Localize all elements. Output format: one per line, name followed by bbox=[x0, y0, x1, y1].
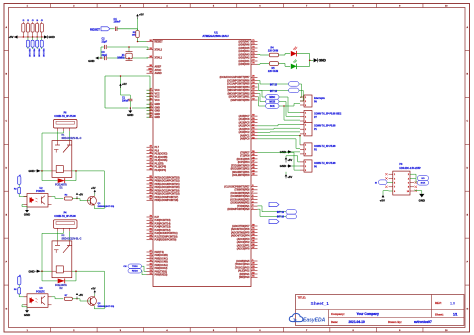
wire PH1 PH0 to CN ports bbox=[142, 266, 147, 274]
svg-text:2: 2 bbox=[305, 101, 306, 103]
connector P6 CONN-TH_3P-P5.08 bbox=[54, 112, 78, 131]
optocoupler U2 PC817C bbox=[24, 188, 52, 207]
connector P6b CONN-TH_3P-P5.08 bbox=[300, 160, 336, 172]
svg-text:100nF: 100nF bbox=[114, 21, 121, 24]
net port SCK bbox=[266, 104, 280, 109]
diode D2 FCEL4STA flyback bbox=[42, 270, 104, 290]
svg-text:220 OHM: 220 OHM bbox=[268, 70, 278, 73]
wire crystal caps to ground bbox=[99, 47, 102, 59]
svg-text:J1: J1 bbox=[22, 20, 24, 22]
svg-text:G: G bbox=[5, 308, 7, 310]
wire PE1 PE0 to INT ports bbox=[258, 206, 287, 217]
wire PC2 to P1 pin3 bbox=[258, 131, 301, 133]
svg-text:EasyEDA: EasyEDA bbox=[303, 318, 326, 324]
svg-text:J3: J3 bbox=[32, 20, 34, 22]
wire R4 to LED D3 bbox=[278, 54, 290, 55]
wire PB6 to INT 15 bbox=[258, 81, 289, 84]
ground port (P8 pin2) bbox=[280, 164, 300, 168]
svg-text:GND: GND bbox=[280, 164, 286, 168]
ground port (J1) bbox=[44, 35, 55, 39]
svg-text:SRD-DC12V-SL-C: SRD-DC12V-SL-C bbox=[62, 137, 82, 140]
wire LEDs to GND bbox=[297, 54, 314, 67]
svg-text:CONN-TH_3P-P5.08: CONN-TH_3P-P5.08 bbox=[54, 116, 76, 118]
ground port (LEDs) bbox=[314, 58, 327, 62]
+5V flag (P3) bbox=[380, 191, 389, 203]
ground (P3) bbox=[414, 191, 425, 203]
net port INT 19 bbox=[277, 210, 297, 215]
diode D1 FCEL4STA flyback bbox=[42, 170, 104, 190]
wire PC4 to P1 pin1 bbox=[258, 125, 301, 126]
ground (crystal) bbox=[88, 57, 98, 63]
net port MOSI (P3) bbox=[375, 180, 389, 185]
svg-text:Interrupts: Interrupts bbox=[314, 97, 325, 100]
svg-text:VCC: VCC bbox=[155, 99, 160, 102]
optocoupler U3 PC817C bbox=[24, 288, 52, 307]
capacitor C2 22pF bbox=[102, 38, 108, 50]
connector J1 5-pin header bbox=[14, 19, 47, 38]
svg-text:RES 10K: RES 10K bbox=[42, 49, 44, 58]
title block bbox=[296, 295, 465, 326]
svg-text:TXD2: TXD2 bbox=[132, 266, 138, 268]
net port SCK (P3) bbox=[414, 178, 429, 185]
svg-text:+5V: +5V bbox=[122, 82, 127, 86]
svg-text:2: 2 bbox=[305, 117, 306, 119]
+5V flag (Q collector) bbox=[91, 287, 96, 296]
svg-text:INT 14: INT 14 bbox=[270, 90, 278, 93]
svg-text:FCEL4STA: FCEL4STA bbox=[55, 284, 67, 287]
+5V flag (VCC) bbox=[119, 82, 127, 88]
wire PA3 to R4 bbox=[258, 54, 270, 57]
net port INT 18 bbox=[277, 214, 297, 219]
resistor R4 220 OHM bbox=[268, 46, 279, 57]
svg-text:22pF: 22pF bbox=[102, 54, 108, 57]
wire XTAL2 net bbox=[101, 47, 148, 49]
relay K1 SRD-DC12V-SL-C bbox=[52, 135, 82, 178]
svg-text:GND: GND bbox=[24, 313, 30, 317]
svg-text:RES 10K: RES 10K bbox=[37, 49, 39, 58]
svg-text:1: 1 bbox=[305, 112, 306, 114]
svg-text:SRD-DC12V-SL-C: SRD-DC12V-SL-C bbox=[62, 237, 82, 240]
svg-text:XTAL2: XTAL2 bbox=[155, 48, 163, 51]
net flag CN2 bbox=[18, 274, 22, 285]
svg-text:XTAL1: XTAL1 bbox=[155, 57, 163, 60]
resistors R8-R11 pullup bbox=[26, 37, 44, 57]
wire connector to relay bbox=[42, 231, 70, 271]
+5V flag (opto pullup) bbox=[76, 193, 84, 199]
+5V flag (opto pullup) bbox=[76, 293, 84, 299]
net flag CN label bbox=[123, 266, 127, 268]
wire VCC loop bbox=[105, 75, 151, 118]
wire PC3 to P1 pin2 bbox=[258, 127, 301, 130]
svg-text:3: 3 bbox=[305, 170, 306, 172]
svg-text:SCK: SCK bbox=[421, 183, 426, 185]
connector P2 CONN-TH_3P-P5.08 bbox=[300, 143, 336, 156]
svg-text:Your Company: Your Company bbox=[357, 312, 380, 316]
svg-text:CONN-TH_3P-P5.08: CONN-TH_3P-P5.08 bbox=[54, 216, 76, 218]
net port CN RX bbox=[128, 269, 142, 273]
svg-text:ATMEGA2560-16AU: ATMEGA2560-16AU bbox=[202, 34, 228, 38]
svg-text:CONN-TH_3P-P5.08 HID2: CONN-TH_3P-P5.08 HID2 bbox=[314, 114, 342, 116]
ground (opto) bbox=[22, 305, 30, 317]
connector P4 CONN-TH_3P-P5.08 bbox=[54, 212, 78, 232]
svg-text:+5V: +5V bbox=[91, 287, 96, 290]
svg-text:+5V: +5V bbox=[288, 175, 293, 179]
ground port (P2) bbox=[280, 150, 300, 154]
resistor R7 bbox=[52, 295, 78, 301]
svg-text:INT 15: INT 15 bbox=[270, 83, 278, 86]
wire PB2 to MOSI bbox=[258, 94, 266, 102]
svg-text:PH0(RXD2): PH0(RXD2) bbox=[155, 274, 168, 277]
wire MISO to P7 bbox=[279, 97, 300, 113]
svg-text:2N3904(SOT-23): 2N3904(SOT-23) bbox=[98, 205, 115, 208]
net port INT 14 bbox=[270, 88, 299, 93]
svg-text:SO: SO bbox=[421, 178, 424, 180]
transistor Q1 2N3904 bbox=[77, 196, 114, 208]
wire PB5 to INT 14 bbox=[258, 84, 289, 91]
connector P9 Interrupts bbox=[300, 95, 325, 107]
svg-text:2: 2 bbox=[305, 129, 306, 131]
svg-text:(ADC0)PF0: (ADC0)PF0 bbox=[237, 248, 250, 251]
svg-text:GND: GND bbox=[49, 35, 55, 39]
svg-text:(SS/PCINT0)PB0: (SS/PCINT0)PB0 bbox=[231, 99, 251, 102]
svg-text:PJ0(RXD3/PCINT9): PJ0(RXD3/PCINT9) bbox=[155, 239, 177, 242]
wire emitter to relay coil bbox=[94, 271, 104, 309]
wire SCK to P9 pin3 bbox=[281, 104, 300, 107]
wire INT 14 to P9 bbox=[299, 90, 303, 101]
svg-text:16MHz: 16MHz bbox=[117, 58, 125, 60]
net port MISO (P3) bbox=[414, 174, 429, 180]
svg-text:GND: GND bbox=[419, 198, 425, 202]
svg-text:FCEL4STA: FCEL4STA bbox=[55, 184, 67, 187]
wire PC1 to P2 pin1 bbox=[258, 135, 301, 145]
svg-text:2021-04-10: 2021-04-10 bbox=[349, 320, 366, 324]
svg-text:AGND: AGND bbox=[155, 72, 162, 75]
svg-text:GND: GND bbox=[319, 59, 327, 63]
svg-text:3: 3 bbox=[305, 134, 306, 136]
svg-text:Sheet:: Sheet: bbox=[435, 312, 444, 316]
svg-text:1/1: 1/1 bbox=[453, 312, 458, 316]
svg-text:INT 19: INT 19 bbox=[277, 211, 285, 214]
svg-text:GND: GND bbox=[280, 150, 286, 154]
svg-text:220 OHM: 220 OHM bbox=[268, 50, 278, 53]
capacitor C4 100nF bbox=[114, 18, 121, 31]
+5V flag (lower) bbox=[285, 172, 293, 179]
U1 right pins: PA-PG ports bbox=[220, 40, 258, 279]
svg-text:RESET: RESET bbox=[90, 27, 100, 31]
svg-text:(A8)PC0: (A8)PC0 bbox=[240, 138, 250, 141]
svg-text:INT 18: INT 18 bbox=[277, 216, 285, 219]
svg-text:avtronics97: avtronics97 bbox=[414, 320, 432, 324]
svg-text:3: 3 bbox=[305, 154, 306, 156]
net port INT 15 bbox=[270, 82, 299, 87]
svg-text:RES 10K: RES 10K bbox=[33, 49, 35, 58]
svg-text:Company:: Company: bbox=[331, 312, 345, 316]
svg-text:J2: J2 bbox=[27, 20, 29, 22]
net flag speaker A bbox=[269, 203, 279, 207]
svg-text:MISO: MISO bbox=[269, 97, 275, 99]
wire PB3 to MISO bbox=[258, 90, 266, 97]
svg-text:+5V: +5V bbox=[79, 294, 84, 297]
svg-text:(RXD0/PCINT8)PE0: (RXD0/PCINT8)PE0 bbox=[227, 208, 250, 211]
svg-text:Sheet_1: Sheet_1 bbox=[311, 301, 330, 307]
EasyEDA logo bbox=[289, 313, 325, 323]
connector P7 CONN-TH_3P-P5.08 HID2 bbox=[300, 111, 342, 124]
crystal X1 16MHz bbox=[117, 46, 132, 60]
+5V flag (R1) bbox=[136, 13, 144, 31]
svg-text:22pF: 22pF bbox=[102, 40, 108, 43]
svg-text:(AD0)PA0: (AD0)PA0 bbox=[238, 63, 250, 66]
svg-text:GND: GND bbox=[127, 113, 133, 117]
svg-text:GND: GND bbox=[155, 116, 161, 119]
svg-text:GND: GND bbox=[24, 213, 30, 217]
wire +5V to C1 bbox=[121, 88, 131, 99]
svg-text:1: 1 bbox=[305, 97, 306, 99]
svg-text:(WR)PG0: (WR)PG0 bbox=[239, 276, 250, 279]
svg-text:G: G bbox=[466, 308, 468, 310]
svg-text:2: 2 bbox=[305, 166, 306, 168]
wire C1 to ground bbox=[130, 101, 132, 109]
svg-text:(SCL/INT0)PD0: (SCL/INT0)PD0 bbox=[232, 174, 250, 177]
capacitor C1 100uF bbox=[122, 98, 132, 103]
svg-text:+5V: +5V bbox=[79, 194, 84, 197]
U1 left pins: control/power bbox=[147, 40, 164, 119]
svg-text:GND: GND bbox=[28, 169, 34, 173]
svg-text:+5V: +5V bbox=[288, 158, 293, 162]
wire INT 15 to P9 bbox=[299, 84, 302, 98]
net port CN TX bbox=[128, 264, 142, 268]
svg-text:+5V: +5V bbox=[91, 187, 96, 190]
svg-text:CN: CN bbox=[123, 266, 127, 268]
ground port (relay) bbox=[28, 169, 52, 173]
net port MOSI bbox=[266, 99, 280, 104]
op-amp U1 ATMEGA2560-16AU (MCU) bbox=[153, 30, 251, 286]
wire PA0 to R5 bbox=[258, 63, 270, 66]
svg-text:RES 10K: RES 10K bbox=[28, 49, 30, 58]
+5V flag (Q collector) bbox=[91, 187, 96, 196]
connector P3 HDR-IDC-2.54-2X5P bbox=[385, 163, 421, 195]
svg-text:RESET: RESET bbox=[155, 40, 164, 43]
resistor R1 10k bbox=[132, 31, 139, 38]
wire PD7 to P8 pin3 bbox=[258, 152, 301, 170]
wire R5 to LED D4 bbox=[278, 64, 290, 67]
svg-text:PK0(ADC8/PCINT16): PK0(ADC8/PCINT16) bbox=[155, 199, 179, 202]
svg-text:1.0: 1.0 bbox=[450, 301, 455, 305]
svg-text:PL0(ICP4): PL0(ICP4) bbox=[155, 169, 167, 172]
resistor R5 220 OHM bbox=[268, 62, 279, 73]
svg-text:GND: GND bbox=[88, 59, 94, 63]
resistor R6 bbox=[14, 285, 27, 297]
svg-text:2: 2 bbox=[305, 149, 306, 151]
wire PB1 to SCK bbox=[258, 97, 266, 106]
svg-text:MOSI: MOSI bbox=[269, 101, 275, 103]
svg-text:HDR-IDC-2.54-2X5P: HDR-IDC-2.54-2X5P bbox=[399, 167, 421, 170]
svg-text:2N3904(SOT-23): 2N3904(SOT-23) bbox=[98, 305, 115, 308]
+5V power flag (J1) bbox=[8, 35, 17, 39]
LED D4 green bbox=[291, 59, 297, 69]
wire SCK to P7 bbox=[279, 106, 300, 120]
capacitor C3 22pF bbox=[102, 51, 108, 60]
svg-text:+5V: +5V bbox=[380, 198, 385, 202]
net flag speaker B bbox=[269, 220, 279, 224]
svg-text:CONN-TH_3P-P5.08: CONN-TH_3P-P5.08 bbox=[314, 126, 336, 128]
wire XTAL1 net bbox=[101, 57, 148, 59]
ground port (relay) bbox=[28, 269, 52, 273]
ground (C1) bbox=[127, 108, 133, 117]
svg-text:+5V: +5V bbox=[139, 13, 144, 17]
net port MISO bbox=[266, 95, 280, 100]
LED D3 red bbox=[291, 46, 298, 56]
svg-text:TITLE:: TITLE: bbox=[298, 295, 306, 299]
relay K2 SRD-DC12V-SL-C bbox=[52, 235, 82, 278]
connector P1 CONN-TH_3P-P5.08 bbox=[300, 123, 336, 136]
wire PC0 to P2 pin2 bbox=[258, 139, 301, 149]
wire C4 to RESET pin bbox=[117, 29, 147, 42]
svg-text:J5: J5 bbox=[41, 20, 43, 22]
wire connector to relay bbox=[42, 131, 70, 171]
svg-text:PC817C: PC817C bbox=[36, 292, 45, 294]
svg-text:SCK: SCK bbox=[270, 106, 275, 108]
net flag RESET bbox=[90, 27, 110, 32]
svg-text:1: 1 bbox=[305, 145, 306, 147]
svg-text:3: 3 bbox=[305, 105, 306, 107]
wire MOSI to P7 bbox=[279, 102, 300, 117]
svg-text:CONN-TH_3P-P5.08: CONN-TH_3P-P5.08 bbox=[314, 146, 336, 148]
U1 left pins: PL PK PJ PH ports bbox=[147, 145, 180, 277]
svg-text:CONN-TH_3P-P5.08: CONN-TH_3P-P5.08 bbox=[314, 163, 336, 165]
net flag CN1 bbox=[18, 174, 22, 185]
transistor Q2 2N3904 bbox=[77, 296, 114, 308]
svg-text:100uF: 100uF bbox=[122, 100, 129, 102]
svg-text:GND: GND bbox=[28, 269, 34, 273]
svg-text:PC817C: PC817C bbox=[36, 191, 45, 193]
wire RESET to C4 bbox=[110, 28, 115, 30]
svg-text:Date:: Date: bbox=[331, 320, 338, 324]
svg-text:+5V: +5V bbox=[8, 35, 13, 39]
ground (opto) bbox=[22, 205, 30, 217]
svg-text:1: 1 bbox=[305, 162, 306, 164]
svg-text:REV:: REV: bbox=[435, 301, 442, 305]
resistor R3 bbox=[52, 195, 78, 201]
resistor R2 bbox=[14, 185, 27, 197]
svg-text:1: 1 bbox=[305, 124, 306, 126]
svg-text:J4: J4 bbox=[36, 19, 38, 22]
wire emitter to relay coil bbox=[94, 171, 104, 209]
+5V flag (P6b pin1) bbox=[285, 156, 300, 163]
svg-text:RXD2: RXD2 bbox=[132, 271, 139, 273]
svg-text:Drawn By:: Drawn By: bbox=[388, 320, 402, 324]
